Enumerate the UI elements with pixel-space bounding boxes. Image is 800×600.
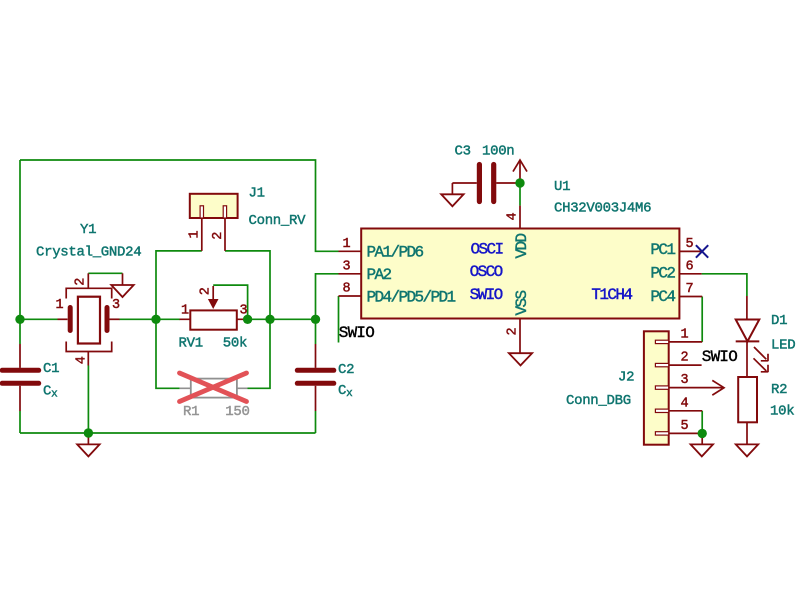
U1 pin 5: [679, 250, 701, 252]
arrow at J2 pin 3: [712, 380, 724, 395]
svg-text:CH32V003J4M6: CH32V003J4M6: [554, 201, 651, 217]
svg-text:PC4: PC4: [650, 288, 675, 306]
wire crystal pin3 to RV1 pin1: [119, 318, 180, 320]
svg-text:4: 4: [506, 213, 521, 221]
wire R1 right loop: [248, 319, 271, 388]
svg-text:150: 150: [225, 404, 249, 420]
svg-text:R2: R2: [771, 382, 787, 398]
wire crystal pin2 to gnd: [88, 272, 122, 274]
svg-text:2: 2: [681, 351, 689, 366]
ground at bottom rail: [77, 433, 99, 456]
svg-text:1: 1: [188, 231, 203, 239]
crystal Y1 pin 1: [58, 318, 68, 320]
svg-text:8: 8: [343, 282, 351, 297]
power flag VDD arrow: [513, 160, 527, 183]
svg-text:4: 4: [74, 356, 89, 364]
ground at J2 pin5: [691, 433, 713, 456]
svg-text:SWIO: SWIO: [702, 348, 737, 366]
wire U1 pin7 to J2 pin1: [701, 297, 703, 342]
svg-text:1: 1: [56, 298, 64, 313]
svg-text:4: 4: [681, 396, 689, 411]
wire U1 pin6 to LED: [702, 274, 747, 296]
svg-text:3: 3: [112, 298, 120, 313]
DNP cross on R1: [180, 373, 247, 402]
junction J1 pin2 branch: [265, 315, 274, 324]
wire VDD junction to U1 pin4: [519, 183, 521, 206]
wire left vertical to C1: [19, 160, 21, 344]
svg-text:7: 7: [686, 282, 694, 297]
svg-text:OSCO: OSCO: [470, 263, 503, 281]
wire main segment RV1 pin3 to C2 top: [248, 318, 316, 320]
svg-text:J2: J2: [618, 370, 634, 386]
svg-text:6: 6: [686, 260, 694, 275]
crystal Y1 pin 3: [110, 318, 120, 320]
svg-text:Crystal_GND24: Crystal_GND24: [36, 245, 141, 261]
svg-text:2: 2: [73, 278, 88, 286]
crystal Y1 body: [66, 288, 112, 351]
wire J1 pin2 down-right: [225, 251, 270, 319]
svg-text:1: 1: [681, 327, 689, 342]
ground at U1 VSS: [509, 353, 532, 365]
connector J2: [644, 331, 723, 444]
svg-text:SWIO: SWIO: [339, 324, 374, 342]
junction C2 top: [311, 315, 320, 324]
svg-text:VDD: VDD: [513, 233, 531, 258]
svg-text:1: 1: [181, 303, 189, 318]
svg-text:Conn_DBG: Conn_DBG: [566, 393, 631, 409]
wire J1 pin1 down-left: [156, 251, 202, 319]
svg-text:U1: U1: [554, 179, 570, 195]
wire bottom rail: [20, 432, 316, 434]
svg-text:2: 2: [199, 287, 214, 295]
wire C2 bottom: [315, 411, 317, 433]
U1 pin 6: [679, 273, 701, 275]
svg-text:J1: J1: [249, 186, 265, 202]
potentiometer RV1: [180, 286, 248, 330]
wire J2 pin4 to pin5: [701, 411, 703, 434]
capacitor C2: [297, 344, 334, 411]
svg-text:R1: R1: [183, 404, 199, 420]
wire C2 top: [315, 319, 317, 344]
ground at crystal pin2: [111, 273, 133, 297]
svg-text:2: 2: [211, 232, 226, 240]
no-connect X at U1 pin5: [696, 245, 708, 258]
U1 pin 1: [339, 250, 362, 252]
svg-text:PD4/PD5/PD1: PD4/PD5/PD1: [367, 288, 456, 306]
ground at R2: [736, 444, 758, 456]
U1 pin 4 VDD: [519, 206, 521, 229]
svg-text:50k: 50k: [223, 336, 247, 352]
svg-text:PC2: PC2: [650, 265, 675, 283]
U1 pin 3: [339, 273, 362, 275]
IC U1 body: [361, 229, 679, 319]
crystal Y1 pin 2: [87, 273, 89, 288]
junction RV1 pin3: [243, 315, 252, 324]
svg-text:PA2: PA2: [367, 266, 392, 284]
wire R1 left loop: [156, 319, 180, 388]
capacitor C1: [2, 344, 39, 411]
svg-text:T1CH4: T1CH4: [591, 286, 632, 304]
svg-text:PA1/PD6: PA1/PD6: [367, 243, 424, 261]
LED D1: [736, 296, 769, 372]
svg-text:1: 1: [343, 237, 351, 252]
svg-text:3: 3: [343, 259, 351, 274]
connector J1: [190, 194, 238, 251]
U1 pin 7: [679, 296, 702, 298]
svg-text:PC1: PC1: [650, 241, 675, 259]
svg-text:D1: D1: [771, 313, 787, 329]
svg-text:2: 2: [506, 328, 521, 336]
junction VDD C3: [515, 178, 524, 187]
svg-text:C3: C3: [455, 144, 471, 160]
svg-text:LED: LED: [771, 337, 795, 353]
junction left rail: [15, 315, 24, 324]
svg-text:C1: C1: [43, 361, 59, 377]
junction bottom rail gnd: [84, 428, 93, 437]
wire C1 bottom: [19, 411, 21, 433]
svg-text:3: 3: [681, 373, 689, 388]
resistor R1 (DNP): [180, 379, 248, 398]
svg-text:5: 5: [681, 419, 689, 434]
svg-text:SWIO: SWIO: [470, 286, 503, 304]
svg-text:10k: 10k: [770, 404, 794, 420]
wire U1 pin3: [316, 274, 339, 320]
svg-text:VSS: VSS: [513, 290, 531, 315]
U1 pin 8: [339, 295, 362, 297]
svg-text:100n: 100n: [482, 144, 514, 160]
svg-text:3: 3: [240, 303, 248, 318]
U1 pin 2 VSS: [519, 319, 521, 354]
wire crystal pin4 down: [87, 366, 89, 434]
svg-text:5: 5: [686, 237, 694, 252]
wire RV1 wiper loop: [213, 285, 247, 319]
svg-text:RV1: RV1: [179, 336, 203, 352]
junction J2 pin5 gnd: [698, 429, 707, 438]
svg-text:OSCI: OSCI: [471, 240, 504, 258]
resistor R2: [738, 341, 757, 444]
capacitor C3: [452, 165, 515, 202]
junction crystal-RV1: [151, 315, 160, 324]
svg-text:C2: C2: [338, 362, 354, 378]
crystal Y1 pin 4: [87, 351, 89, 366]
ground at C3: [441, 194, 463, 206]
svg-text:Conn_RV: Conn_RV: [249, 213, 307, 229]
wire U1 pin8 SWIO stub: [338, 296, 340, 343]
svg-text:Y1: Y1: [80, 222, 96, 238]
wire top loop to U1 pin1: [20, 160, 339, 251]
wire crystal pin1 branch: [20, 318, 58, 320]
